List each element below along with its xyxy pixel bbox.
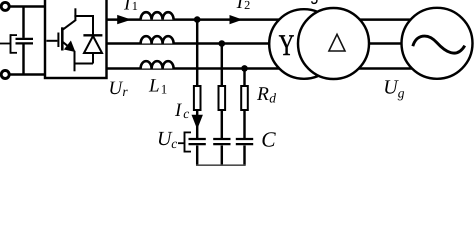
- wire: phase A line: [107, 18, 431, 20]
- wire: collector rail: [74, 15, 93, 17]
- svg-text:Y: Y: [279, 29, 295, 62]
- inverter box: [45, 0, 107, 78]
- transistor Q1 (IGBT): [46, 8, 76, 63]
- wire: DC bottom: [9, 73, 45, 75]
- diode D1: [83, 15, 102, 64]
- svg-text:L: L: [148, 75, 160, 96]
- wire: branch B vertical: [221, 44, 223, 87]
- wire: emitter stub: [74, 63, 76, 72]
- wire: capacitor bus: [196, 164, 246, 166]
- wire: emitter rail: [75, 63, 94, 65]
- voltage bracket Uc: [178, 132, 191, 153]
- source Ug (grid): [402, 8, 473, 79]
- svg-text:2: 2: [244, 0, 250, 12]
- wire: phase B line: [107, 42, 431, 44]
- label remnant (cropped) above transformer: [312, 0, 317, 3]
- svg-text:R: R: [256, 84, 269, 105]
- transformer T1: [269, 8, 369, 79]
- svg-text:c: c: [183, 106, 189, 121]
- svg-text:c: c: [171, 136, 177, 151]
- arrow I2: [230, 15, 243, 24]
- arrow I1: [117, 15, 131, 24]
- wire: DC top: [9, 5, 45, 7]
- wire: branch C vertical: [243, 68, 245, 86]
- node B junction: [219, 40, 226, 47]
- capacitor Cdc (DC link): [16, 7, 34, 75]
- wire: phase C line: [107, 67, 431, 69]
- inductor L1c: [141, 61, 174, 68]
- svg-text:d: d: [269, 91, 276, 106]
- svg-text:U: U: [109, 78, 124, 99]
- terminal circle bottom-left: [1, 71, 9, 79]
- svg-text:1: 1: [161, 81, 168, 96]
- svg-text:C: C: [261, 128, 276, 152]
- node A junction: [194, 16, 201, 23]
- capacitor C1: [189, 139, 206, 165]
- wire: branch A lower: [196, 110, 198, 139]
- arrow Ic: [192, 115, 203, 130]
- svg-text:g: g: [398, 85, 405, 100]
- wire: branch B lower: [221, 110, 223, 139]
- wire: branch C lower: [243, 110, 245, 139]
- capacitor C2: [213, 139, 230, 165]
- resistor Rd2: [219, 86, 226, 110]
- capacitor C3: [236, 139, 253, 165]
- wire: branch A vertical: [196, 20, 198, 86]
- node C junction: [241, 65, 248, 72]
- svg-text:1: 1: [132, 0, 138, 13]
- svg-text:r: r: [122, 84, 128, 99]
- inductor L1b: [141, 36, 174, 43]
- inductor L1a: [141, 12, 174, 19]
- resistor Rd3: [241, 86, 248, 110]
- resistor Rd1: [194, 86, 201, 110]
- terminal circle top-left: [1, 2, 9, 10]
- delta winding symbol: [329, 34, 345, 51]
- voltage bracket Udc: [0, 34, 17, 54]
